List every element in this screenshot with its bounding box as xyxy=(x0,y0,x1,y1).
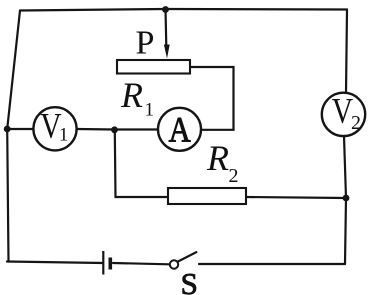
rheostat R1 (potentiometer body) xyxy=(117,60,190,74)
svg-text:R: R xyxy=(206,138,229,178)
wire ammeter to rheostat output xyxy=(190,67,234,130)
wire V1 to node J3 xyxy=(77,128,115,131)
svg-text:1: 1 xyxy=(145,100,155,121)
wire V1 to left node xyxy=(7,128,33,130)
node J1 (left junction) xyxy=(4,126,11,133)
svg-text:R: R xyxy=(120,75,143,115)
battery short thick plate xyxy=(109,258,113,270)
svg-text:A: A xyxy=(169,110,191,150)
wire top xyxy=(20,9,347,11)
battery cell xyxy=(103,251,110,275)
battery long plate xyxy=(102,251,104,275)
wire right side middle xyxy=(344,136,346,198)
wire node J3 to ammeter xyxy=(115,128,159,130)
switch lever xyxy=(178,252,197,261)
ammeter A xyxy=(158,108,201,151)
switch S xyxy=(170,252,197,268)
voltmeter V2 xyxy=(322,92,365,136)
wire right side upper xyxy=(346,10,347,93)
wire R2 to right node xyxy=(246,197,346,198)
wire left side xyxy=(7,11,20,262)
svg-text:S: S xyxy=(181,266,198,295)
node T (top junction) xyxy=(162,6,169,13)
wire bottom right xyxy=(199,263,345,265)
wire bottom left xyxy=(7,262,103,264)
svg-text:2: 2 xyxy=(351,112,361,134)
svg-text:2: 2 xyxy=(229,165,239,187)
wire right side lower xyxy=(345,198,346,264)
resistor R2 body xyxy=(168,188,246,204)
node J3 (between V1 and A) xyxy=(111,126,118,133)
node J2 (right junction) xyxy=(343,195,350,202)
svg-text:P: P xyxy=(136,25,155,62)
wire R2 branch down and across xyxy=(115,132,168,197)
voltmeter V1 xyxy=(33,107,76,151)
svg-text:1: 1 xyxy=(59,124,69,145)
wire bottom between battery and switch xyxy=(113,263,169,264)
wire wiper feed from top node xyxy=(164,9,167,46)
wiper arrow of potentiometer xyxy=(164,45,170,59)
